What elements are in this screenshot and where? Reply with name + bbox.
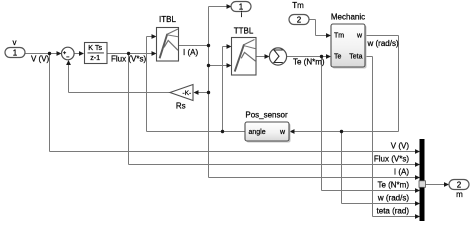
svg-text:Flux (V*s): Flux (V*s) — [111, 55, 146, 64]
svg-text:teta (rad): teta (rad) — [377, 207, 410, 216]
svg-text:K Ts: K Ts — [88, 43, 102, 52]
svg-text:Tm: Tm — [292, 1, 304, 10]
svg-text:z-1: z-1 — [90, 53, 100, 62]
svg-text:m: m — [456, 190, 463, 199]
svg-text:angle: angle — [249, 129, 266, 136]
svg-text:Rs: Rs — [176, 101, 186, 110]
svg-text:1: 1 — [13, 49, 18, 58]
svg-text:V (V): V (V) — [31, 55, 50, 64]
svg-text:i: i — [241, 10, 243, 19]
svg-text:Tm: Tm — [334, 33, 344, 40]
svg-text:Teta: Teta — [349, 54, 362, 61]
svg-text:-K-: -K- — [182, 90, 191, 97]
svg-text:I (A): I (A) — [394, 168, 409, 177]
svg-text:Flux (V*s): Flux (V*s) — [374, 155, 409, 164]
svg-text:w (rad/s): w (rad/s) — [367, 39, 399, 48]
svg-text:w (rad/s): w (rad/s) — [377, 194, 409, 203]
svg-text:w: w — [279, 129, 286, 136]
svg-text:Pos_sensor: Pos_sensor — [245, 110, 288, 119]
svg-text:Te (N*m): Te (N*m) — [293, 58, 325, 67]
svg-text:Te (N*m): Te (N*m) — [377, 181, 409, 190]
svg-text:w: w — [356, 33, 363, 40]
svg-text:2: 2 — [297, 16, 302, 25]
svg-text:2: 2 — [457, 181, 462, 190]
svg-text:v: v — [13, 38, 17, 47]
svg-text:ITBL: ITBL — [159, 15, 176, 24]
svg-text:TTBL: TTBL — [234, 27, 254, 36]
svg-text:I (A): I (A) — [183, 48, 198, 57]
svg-text:Te: Te — [334, 54, 342, 61]
svg-text:Mechanic: Mechanic — [331, 13, 365, 22]
svg-text:V (V): V (V) — [391, 142, 410, 151]
